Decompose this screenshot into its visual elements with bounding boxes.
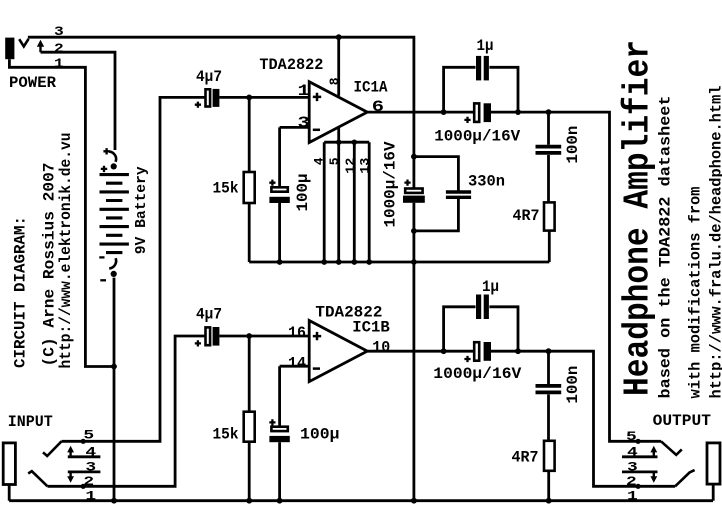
junction battery/ground rail <box>111 498 117 504</box>
supply filter junction 330n top <box>411 154 417 160</box>
capacitor C6 1u plates <box>476 295 481 320</box>
junction R2/ground rail <box>246 498 252 504</box>
arrow INPUT pin4 up <box>69 452 71 457</box>
arrow OUTPUT pin4 up <box>653 452 655 457</box>
capacitor C6 1u loop wire <box>444 307 518 351</box>
svg-text:2: 2 <box>83 474 94 489</box>
pin dot INPUT 5 <box>81 439 86 444</box>
capacitor C7 1000u/16V white plate <box>474 103 479 122</box>
wire POWER pin1 to ground <box>9 59 114 366</box>
svg-text:1µ: 1µ <box>477 37 494 55</box>
svg-text:2: 2 <box>54 42 64 56</box>
plus C8 <box>464 356 470 362</box>
junction output B/C6 loop <box>441 348 447 354</box>
battery plus sign 2 <box>101 166 107 172</box>
junction pin8/V+ rail <box>336 34 342 40</box>
wire OUTPUT pin1 <box>712 483 715 501</box>
wire INPUT pin5 to C1 <box>62 97 206 441</box>
wire IC1B pin16 <box>219 335 309 338</box>
svg-text:INPUT: INPUT <box>8 413 53 431</box>
wire INPUT pin2 to C2 <box>48 336 206 486</box>
wire OUTPUT pin3 <box>622 470 658 473</box>
svg-text:IC1A: IC1A <box>354 78 388 96</box>
wire POWER pin2 <box>41 52 116 150</box>
svg-text:8: 8 <box>327 77 342 85</box>
svg-text:http://www.elektronik.de.vu: http://www.elektronik.de.vu <box>57 132 75 368</box>
svg-text:12: 12 <box>343 157 358 173</box>
wire C1 to IC1A pin1 <box>219 96 309 99</box>
resistor R4 4R7 lead bottom <box>547 471 550 501</box>
capacitor C11 100n top lead <box>547 112 550 145</box>
INPUT switch arm pin2 <box>28 471 47 486</box>
wire IC1A pin12 <box>353 142 356 262</box>
wire 330n loop <box>414 157 459 231</box>
svg-text:100n: 100n <box>564 366 582 404</box>
capacitor C5 1u plates <box>476 56 481 81</box>
wire IC1A pin8 <box>337 37 340 96</box>
arrow OUTPUT pin3 down <box>653 472 655 477</box>
svg-text:4R7: 4R7 <box>512 449 539 467</box>
capacitor C10 supply 1000u/16V white plate <box>405 189 422 193</box>
resistor R2 15k lead bottom <box>248 442 251 501</box>
svg-text:100n: 100n <box>564 126 582 164</box>
svg-text:9V Battery: 9V Battery <box>133 166 150 254</box>
plus C7 <box>464 117 470 123</box>
arrow POWER pin2 <box>39 46 41 52</box>
junction C6 right <box>515 348 521 354</box>
svg-text:(C) Arne Rossius 2007: (C) Arne Rossius 2007 <box>41 163 59 367</box>
resistor R4 4R7 lead top <box>547 394 550 440</box>
junction battery/pin1 <box>111 364 117 370</box>
wire battery negative down to ground rail <box>113 278 116 501</box>
resistor R2 15k body <box>244 412 255 442</box>
pin dot INPUT 2 <box>81 484 86 489</box>
capacitor C3 100u black plate <box>269 197 289 203</box>
wire IC1B pin14 <box>280 366 310 427</box>
wire C10 ground down to rail <box>412 203 415 501</box>
pin dot OUTPUT 2 <box>636 484 641 489</box>
plus C2 <box>195 340 201 346</box>
capacitor C2 4u7 black plate <box>213 327 220 346</box>
capacitor C9 330n plates <box>446 192 471 197</box>
svg-text:15k: 15k <box>213 425 239 443</box>
op-amp IC1B triangle <box>309 321 367 382</box>
capacitor C4 100u black plate <box>269 436 289 442</box>
svg-text:1000µ/16V: 1000µ/16V <box>434 128 520 146</box>
capacitor C3 lead bottom <box>278 203 281 262</box>
svg-text:100µ: 100µ <box>294 174 312 212</box>
svg-text:4: 4 <box>627 445 638 460</box>
ground rail bottom <box>9 499 713 502</box>
junction C2/R2 <box>246 333 252 339</box>
pin dot OUTPUT 5 <box>636 439 641 444</box>
junction C4/ground rail <box>277 498 283 504</box>
resistor R3 4R7 lead top <box>547 155 550 203</box>
plus C10 <box>404 180 410 186</box>
junction output/C5 loop <box>441 109 447 115</box>
INPUT switch arm pin5 <box>43 441 62 456</box>
capacitor C4 lead bottom <box>278 442 281 501</box>
capacitor C8 1000u/16V white plate <box>474 342 479 361</box>
svg-text:14: 14 <box>288 354 306 372</box>
resistor R4 4R7 body <box>544 441 555 471</box>
junction rail pin4 <box>321 259 327 265</box>
svg-text:4R7: 4R7 <box>513 207 540 225</box>
resistor R1 15k lead bottom <box>248 203 251 262</box>
svg-text:Headphone Amplifier: Headphone Amplifier <box>618 40 659 396</box>
connector POWER jack body <box>5 38 14 60</box>
plus C1 <box>195 102 201 108</box>
svg-text:with modifications from: with modifications from <box>687 186 705 398</box>
svg-text:1000µ/16V: 1000µ/16V <box>433 365 521 383</box>
connector INPUT jack body <box>3 443 15 485</box>
capacitor C7 1000u/16V black plate <box>484 103 491 122</box>
ground rail top channel <box>249 261 549 264</box>
svg-text:4µ7: 4µ7 <box>196 305 222 323</box>
IC1A ground pins bus line <box>324 141 369 144</box>
wire INPUT pin3 <box>68 470 101 473</box>
svg-text:3: 3 <box>85 460 96 475</box>
svg-text:15k: 15k <box>213 180 239 198</box>
plus C4 <box>269 419 275 425</box>
svg-text:3: 3 <box>627 460 638 475</box>
svg-text:330n: 330n <box>468 173 505 191</box>
capacitor C2 4u7 white plate <box>206 327 211 345</box>
svg-text:IC1B: IC1B <box>352 318 390 336</box>
capacitor C1 4u7 black plate <box>213 89 220 107</box>
svg-text:5: 5 <box>626 429 637 444</box>
capacitor C5 1u loop wire <box>444 67 518 112</box>
junction bus pin12 <box>352 140 357 145</box>
junction 100n tap bottom channel <box>546 348 552 354</box>
svg-text:5: 5 <box>83 428 94 443</box>
capacitor C1 4u7 top white plate <box>206 89 211 106</box>
svg-text:4: 4 <box>311 157 326 165</box>
resistor R2 15k lead top <box>248 336 251 412</box>
svg-text:1: 1 <box>627 489 638 504</box>
resistor R3 4R7 lead bottom <box>548 231 551 262</box>
junction supply/top ground rail <box>411 259 417 265</box>
capacitor C3 100u white plate <box>271 187 287 191</box>
resistor R1 15k body <box>244 172 255 203</box>
svg-text:4: 4 <box>85 445 96 460</box>
minus IC1A <box>313 129 320 132</box>
capacitor C12 100n lead top <box>547 351 550 384</box>
OUTPUT switch arm pin2 <box>675 470 695 486</box>
junction rail pin13 <box>366 259 372 265</box>
svg-text:TDA2822: TDA2822 <box>259 56 323 74</box>
resistor R1 15k lead top <box>248 97 251 172</box>
svg-text:3: 3 <box>298 114 310 132</box>
svg-text:3: 3 <box>54 25 64 39</box>
junction rail pin5 <box>336 259 342 265</box>
battery minus sign 1 <box>99 256 104 258</box>
svg-text:1: 1 <box>85 489 96 504</box>
svg-text:16: 16 <box>288 324 306 342</box>
op-amp IC1A triangle <box>309 82 367 143</box>
wire IC1A pin6 output <box>367 111 473 114</box>
junction 330n bottom <box>411 228 417 234</box>
svg-text:2: 2 <box>626 474 637 489</box>
svg-text:1000µ/16V: 1000µ/16V <box>382 141 400 227</box>
battery BAT1 bottom clip <box>109 258 116 268</box>
svg-text:13: 13 <box>358 157 373 173</box>
junction supply/bottom ground rail <box>411 498 417 504</box>
wire IC1A pin3 <box>280 127 310 187</box>
arrow INPUT pin3 down <box>69 472 71 477</box>
svg-text:POWER: POWER <box>9 74 56 92</box>
wire C7 output to OUTPUT pin5 <box>491 112 661 441</box>
battery minus sign 2 <box>100 279 106 281</box>
capacitor C8 1000u/16V black plate <box>484 342 491 361</box>
svg-text:1: 1 <box>298 82 310 100</box>
plus IC1B <box>313 332 321 340</box>
connector OUTPUT jack body <box>707 443 720 484</box>
junction C5 right <box>515 109 521 115</box>
svg-text:5: 5 <box>327 157 342 165</box>
capacitor C12 100n plates <box>536 386 562 393</box>
plus C3 <box>269 180 275 186</box>
minus IC1B <box>313 367 320 370</box>
battery BAT1 top clip <box>109 152 116 162</box>
wire INPUT pin1 to ground rail <box>8 485 11 501</box>
POWER plug tip V symbol <box>19 39 28 47</box>
wire POWER pin3 V+ rail <box>28 37 414 188</box>
capacitor C11 100n plates <box>536 147 562 153</box>
svg-text:based on the TDA2822 datasheet: based on the TDA2822 datasheet <box>657 96 675 399</box>
svg-text:1: 1 <box>54 57 64 71</box>
svg-text:1µ: 1µ <box>482 278 499 296</box>
capacitor C4 100u white plate <box>271 427 287 431</box>
svg-text:http://www.fralu.de/headphone.: http://www.fralu.de/headphone.html <box>707 86 722 399</box>
svg-text:100µ: 100µ <box>300 426 340 444</box>
junction rail pin12 <box>351 259 357 265</box>
junction C3/ground rail <box>277 259 283 265</box>
wire IC1A pin5 <box>337 127 340 262</box>
svg-text:CIRCUIT DIAGRAM:: CIRCUIT DIAGRAM: <box>12 216 30 368</box>
svg-text:6: 6 <box>372 98 384 116</box>
battery BAT1 plates <box>100 175 129 253</box>
svg-text:OUTPUT: OUTPUT <box>653 412 712 430</box>
junction C1/R1 <box>246 95 252 101</box>
wire C8 output to OUTPUT pin2 <box>491 351 675 486</box>
wire IC1A pin13 <box>368 142 371 262</box>
wire INPUT pin4 <box>68 455 101 458</box>
junction R4/ground rail <box>546 498 552 504</box>
wire OUTPUT pin4 <box>622 455 658 458</box>
junction 100n tap top <box>546 109 552 115</box>
plus IC1A <box>313 93 321 101</box>
capacitor C10 supply black plate <box>403 196 425 203</box>
battery plus sign 1 <box>103 148 109 154</box>
resistor R3 4R7 body <box>544 202 555 230</box>
wire IC1A pin4 <box>323 142 326 262</box>
wire IC1B pin10 output <box>367 350 473 353</box>
junction bus pin5 <box>336 140 341 145</box>
svg-text:10: 10 <box>372 338 390 356</box>
OUTPUT switch arm pin5 <box>661 441 682 455</box>
svg-text:4µ7: 4µ7 <box>196 68 222 86</box>
